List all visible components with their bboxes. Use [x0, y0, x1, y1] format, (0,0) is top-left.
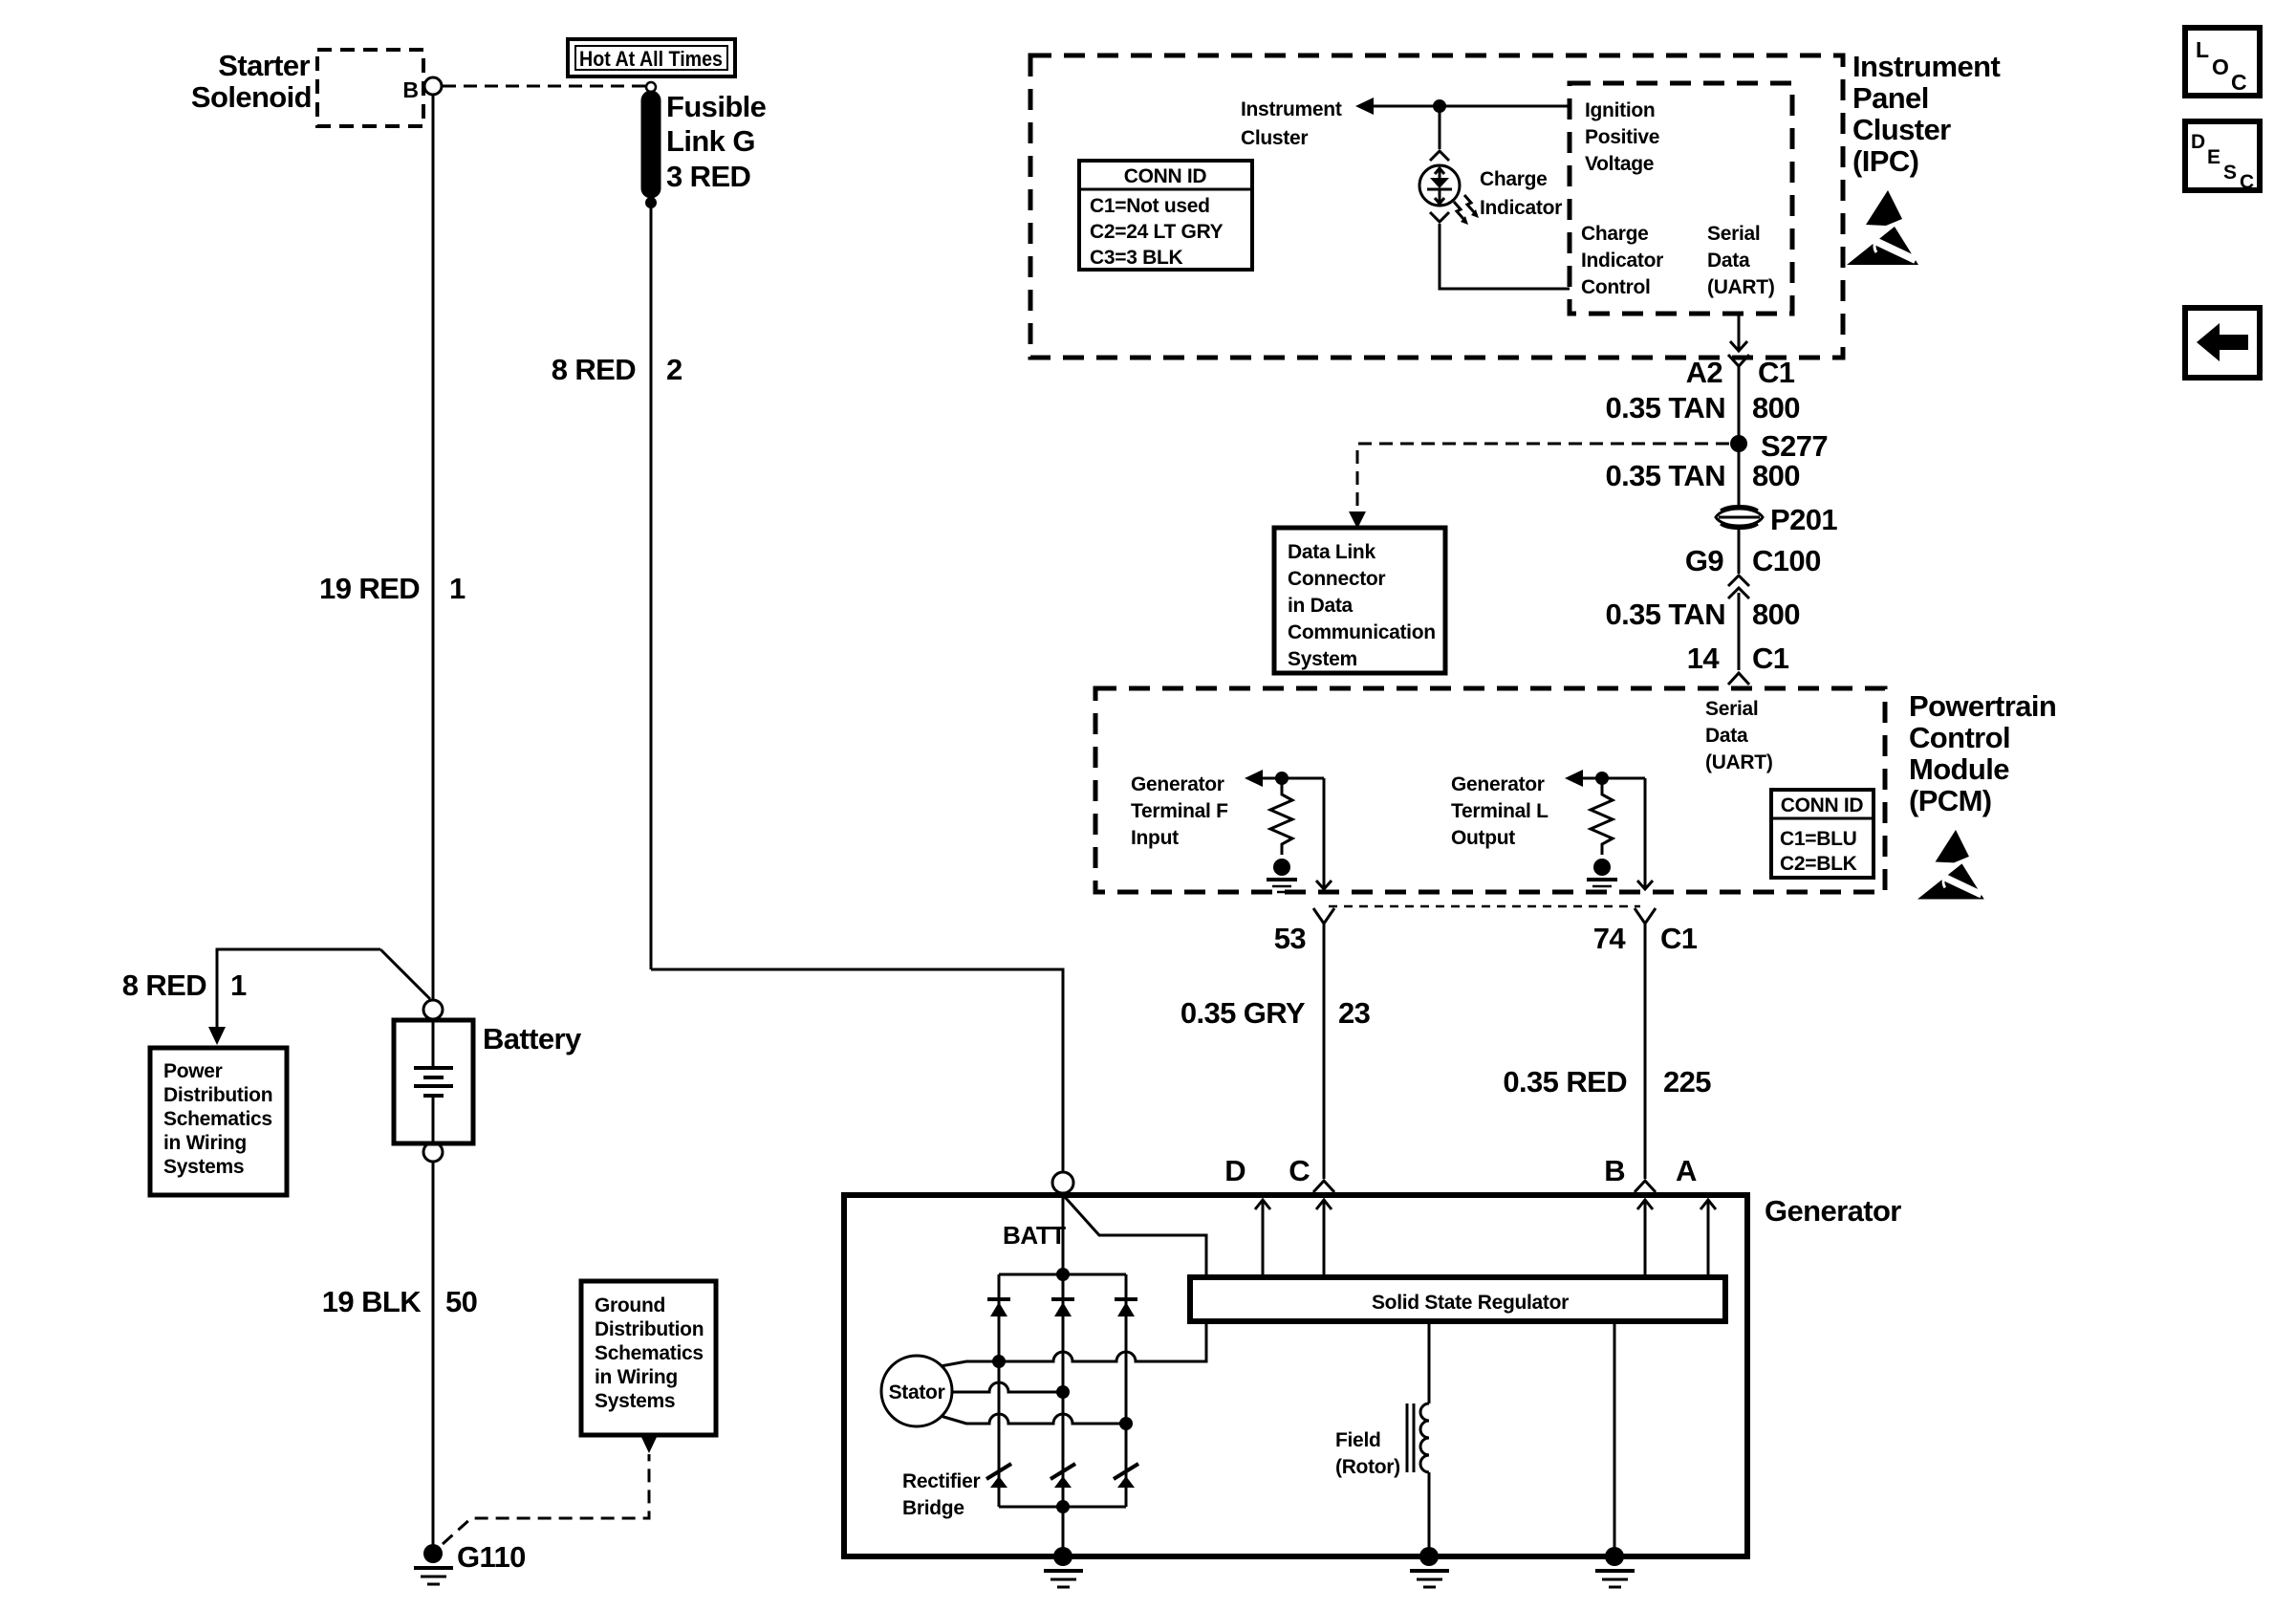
wire rectifier to ground — [1062, 1507, 1065, 1550]
svg-text:Positive: Positive — [1585, 126, 1659, 148]
svg-text:System: System — [1288, 648, 1357, 670]
svg-text:Starter: Starter — [218, 49, 310, 82]
wire 0.35 RED 225 — [1644, 924, 1647, 1179]
battery bottom terminal circle — [423, 1142, 443, 1162]
pin B label — [402, 77, 419, 102]
PCM C1 connector rail dashed — [1329, 905, 1640, 908]
svg-text:Power: Power — [163, 1060, 223, 1082]
svg-text:Generator: Generator — [1131, 773, 1224, 795]
svg-text:Instrument: Instrument — [1852, 50, 2000, 83]
connector chevron below LED — [1430, 212, 1449, 222]
svg-text:L: L — [2196, 37, 2209, 62]
diode bottom 2 — [1051, 1464, 1075, 1479]
svg-text:Serial: Serial — [1705, 698, 1758, 720]
svg-text:50: 50 — [445, 1285, 477, 1318]
field rotor label — [1335, 1429, 1400, 1478]
junction dot F — [1275, 772, 1289, 785]
svg-text:G9: G9 — [1685, 544, 1724, 577]
svg-text:1: 1 — [449, 572, 466, 605]
svg-text:A: A — [1676, 1154, 1697, 1187]
svg-text:S277: S277 — [1761, 429, 1828, 463]
svg-text:Fusible: Fusible — [666, 90, 767, 123]
wire 0.35 GRY 23 — [1323, 924, 1326, 1179]
hot at all times box — [568, 39, 735, 76]
BATT terminal circle — [1052, 1172, 1073, 1193]
field rotor coil — [1428, 1321, 1431, 1403]
svg-text:0.35 TAN: 0.35 TAN — [1605, 459, 1725, 492]
svg-text:in Wiring: in Wiring — [595, 1366, 678, 1388]
regulator arrow A — [1707, 1201, 1710, 1277]
regulator output arrow C — [1323, 1201, 1326, 1277]
wire terminal L — [1582, 777, 1645, 780]
wire BATT to regulator — [1065, 1197, 1206, 1276]
wire BATT to rectifier bus — [1062, 1195, 1065, 1274]
svg-text:Ignition: Ignition — [1585, 99, 1655, 121]
junction dot bottom bus — [1056, 1500, 1070, 1513]
svg-text:Data Link: Data Link — [1288, 541, 1375, 563]
svg-text:Systems: Systems — [595, 1390, 675, 1412]
regulator input arrow B — [1644, 1201, 1647, 1277]
svg-text:(Rotor): (Rotor) — [1335, 1456, 1400, 1478]
terminal B circle — [424, 77, 442, 95]
svg-text:Instrument: Instrument — [1241, 98, 1342, 120]
svg-text:Solenoid: Solenoid — [191, 80, 312, 114]
svg-text:C2=24 LT GRY: C2=24 LT GRY — [1090, 221, 1224, 243]
svg-text:B: B — [402, 77, 419, 102]
svg-text:BATT: BATT — [1003, 1221, 1066, 1250]
rectifier column 2 — [1062, 1274, 1065, 1507]
wire label 19 BLK 50 — [322, 1285, 478, 1318]
svg-text:14: 14 — [1687, 642, 1721, 675]
LED light rays — [1454, 195, 1479, 225]
svg-text:C: C — [2240, 171, 2254, 193]
svg-text:Generator: Generator — [1451, 773, 1545, 795]
svg-text:in Data: in Data — [1288, 595, 1354, 617]
charge indicator label — [1480, 168, 1562, 219]
power distribution schematics box — [150, 1048, 287, 1195]
connector C100 — [1685, 544, 1821, 577]
svg-text:800: 800 — [1752, 598, 1800, 631]
svg-text:C1: C1 — [1660, 922, 1698, 955]
svg-text:Module: Module — [1909, 752, 2009, 786]
svg-text:74: 74 — [1593, 922, 1627, 955]
charge indicator LED — [1419, 165, 1460, 206]
svg-text:Terminal F: Terminal F — [1131, 800, 1228, 822]
svg-text:Panel: Panel — [1852, 81, 1929, 115]
svg-text:Field: Field — [1335, 1429, 1381, 1451]
resistor L pull-up — [1591, 778, 1613, 855]
wire charge indicator control — [1440, 224, 1570, 289]
diode bottom 1 — [986, 1464, 1011, 1479]
svg-text:B: B — [1604, 1154, 1625, 1187]
svg-text:C1: C1 — [1752, 642, 1789, 675]
wire ignition positive voltage — [1373, 105, 1570, 108]
rectifier top bus — [999, 1273, 1126, 1276]
stator — [881, 1356, 952, 1426]
svg-text:Schematics: Schematics — [595, 1342, 704, 1364]
regulator output arrow D — [1262, 1201, 1265, 1277]
connector chevron at generator C — [1313, 1181, 1334, 1192]
svg-text:53: 53 — [1274, 922, 1307, 955]
rectifier bridge label — [902, 1470, 980, 1519]
wire dashed B to fusible link — [443, 85, 645, 88]
svg-text:Connector: Connector — [1288, 568, 1385, 590]
svg-text:CONN ID: CONN ID — [1781, 794, 1864, 816]
back arrow button — [2185, 308, 2260, 378]
diode top 1 — [987, 1297, 1010, 1301]
rectifier column 3 — [1125, 1274, 1128, 1507]
connector chevron above LED — [1430, 151, 1449, 161]
arrow into power distribution box — [208, 1027, 226, 1045]
arrow to ground distribution box — [640, 1435, 658, 1453]
battery box — [394, 1020, 473, 1143]
LOC button — [2185, 28, 2260, 96]
regulator ground wire — [1614, 1321, 1616, 1550]
svg-text:C1=BLU: C1=BLU — [1780, 828, 1856, 850]
svg-text:Data: Data — [1705, 725, 1748, 747]
svg-text:800: 800 — [1752, 391, 1800, 424]
svg-text:Cluster: Cluster — [1241, 127, 1308, 149]
instrument panel cluster IPC box — [1030, 55, 1843, 358]
svg-text:19 BLK: 19 BLK — [322, 1285, 422, 1318]
ignition positive voltage label — [1585, 99, 1659, 175]
svg-text:Distribution: Distribution — [163, 1084, 272, 1106]
battery label — [483, 1022, 582, 1055]
svg-text:C1=Not used: C1=Not used — [1090, 195, 1210, 217]
BATT label — [1003, 1221, 1066, 1250]
svg-text:3 RED: 3 RED — [666, 160, 751, 193]
serial data wire out of IPC — [1738, 314, 1741, 350]
svg-text:E: E — [2207, 146, 2220, 168]
grommet P201 — [1716, 507, 1763, 529]
svg-text:O: O — [2212, 54, 2229, 79]
svg-text:Distribution: Distribution — [595, 1318, 704, 1340]
svg-text:(UART): (UART) — [1705, 751, 1773, 773]
ESD symbol IPC — [1847, 190, 1918, 265]
svg-text:2: 2 — [666, 353, 682, 386]
svg-text:Charge: Charge — [1581, 223, 1649, 245]
svg-text:(UART): (UART) — [1707, 276, 1775, 298]
generator terminal F input label — [1131, 773, 1228, 849]
serial data UART label IPC — [1707, 223, 1775, 298]
arrow to instrument cluster — [1355, 98, 1374, 115]
svg-text:23: 23 — [1338, 996, 1371, 1030]
diode top 3 — [1115, 1297, 1137, 1301]
svg-text:D: D — [2191, 131, 2205, 153]
svg-text:S: S — [2223, 162, 2237, 184]
svg-text:0.35 TAN: 0.35 TAN — [1605, 598, 1725, 631]
svg-text:Stator: Stator — [889, 1382, 945, 1403]
wire 8 RED horizontal to generator BATT — [651, 969, 1063, 1171]
IPC title — [1852, 50, 2000, 178]
connector chevron at generator B — [1635, 1181, 1656, 1192]
ground G110 — [423, 1544, 443, 1563]
stator phase 3 wire — [941, 1414, 1126, 1424]
svg-text:Bridge: Bridge — [902, 1497, 964, 1519]
branch wire 8 RED to power distribution — [217, 949, 380, 1027]
svg-text:0.35 TAN: 0.35 TAN — [1605, 391, 1725, 424]
svg-text:Systems: Systems — [163, 1156, 244, 1178]
svg-text:Generator: Generator — [1765, 1194, 1901, 1228]
rectifier column 1 — [998, 1274, 1001, 1507]
svg-text:in Wiring: in Wiring — [163, 1132, 247, 1154]
wire 0.35 TAN 800 upper — [1738, 366, 1741, 436]
svg-text:Data: Data — [1707, 250, 1750, 272]
svg-text:G110: G110 — [457, 1540, 526, 1574]
svg-text:Ground: Ground — [595, 1295, 665, 1316]
starter solenoid label — [191, 49, 312, 114]
svg-text:Indicator: Indicator — [1480, 197, 1562, 219]
arrow into data link connector box — [1349, 511, 1366, 529]
powertrain control module PCM box — [1095, 688, 1885, 892]
svg-text:8 RED: 8 RED — [552, 353, 637, 386]
stator phase 1 wire — [941, 1361, 999, 1366]
diode top 2 — [1051, 1297, 1074, 1301]
PCM title — [1909, 689, 2056, 817]
junction dot top bus — [1056, 1268, 1070, 1281]
generator label — [1765, 1194, 1901, 1228]
battery top terminal circle — [423, 1000, 443, 1019]
PCM internal ground F — [1273, 859, 1290, 876]
svg-text:Cluster: Cluster — [1852, 113, 1951, 146]
svg-text:800: 800 — [1752, 459, 1800, 492]
wire label 8 RED 1 — [122, 968, 247, 1002]
svg-text:Indicator: Indicator — [1581, 250, 1663, 272]
IPC inner module box — [1570, 83, 1792, 314]
svg-text:(PCM): (PCM) — [1909, 784, 1992, 817]
svg-text:CONN ID: CONN ID — [1124, 165, 1207, 187]
wire down to charge indicator — [1439, 106, 1441, 149]
svg-text:19 RED: 19 RED — [319, 572, 420, 605]
svg-text:C: C — [2231, 70, 2247, 95]
stator phase 2 wire — [952, 1382, 1063, 1392]
resistor F pull-up — [1270, 778, 1292, 855]
wire 0.35 TAN 800 lower — [1738, 593, 1741, 670]
wire 19 RED vertical — [432, 95, 435, 1000]
svg-text:Battery: Battery — [483, 1022, 582, 1055]
splice S277 — [1730, 435, 1747, 452]
junction dot L — [1595, 772, 1609, 785]
wire 19 BLK vertical — [432, 1162, 435, 1546]
wire 8 RED vertical from fusible link — [650, 207, 653, 969]
battery cell symbol — [432, 1019, 435, 1068]
svg-text:(IPC): (IPC) — [1852, 144, 1918, 178]
PCM internal ground L — [1593, 859, 1611, 876]
svg-text:Control: Control — [1581, 276, 1651, 298]
svg-text:C: C — [1289, 1154, 1310, 1187]
ground distribution schematics box — [581, 1281, 716, 1435]
svg-text:Voltage: Voltage — [1585, 153, 1654, 175]
ESD symbol PCM — [1917, 830, 1984, 900]
junction dot charge indicator — [1433, 99, 1446, 113]
generator pin labels D C B A — [1224, 1154, 1697, 1187]
wire terminal F output exits PCM — [1323, 778, 1326, 888]
svg-text:Schematics: Schematics — [163, 1108, 272, 1130]
IPC conn id table — [1079, 161, 1252, 270]
charge indicator control label — [1581, 223, 1663, 298]
svg-text:1: 1 — [230, 968, 247, 1002]
solid state regulator box — [1190, 1277, 1725, 1321]
svg-text:Solid State Regulator: Solid State Regulator — [1372, 1292, 1569, 1314]
dashed wire G110 to ground distribution box — [443, 1454, 649, 1544]
fusible link G bottom junction dot — [645, 197, 657, 208]
arrow to generator terminal L output — [1565, 770, 1583, 787]
wire label 19 RED 1 — [319, 572, 466, 605]
DESC button — [2185, 121, 2260, 190]
arrow to generator terminal F input — [1245, 770, 1263, 787]
svg-text:Charge: Charge — [1480, 168, 1548, 190]
field ground — [1419, 1547, 1439, 1566]
wire diagonal into battery terminal — [380, 949, 430, 999]
svg-text:225: 225 — [1663, 1065, 1711, 1099]
wire 0.35 TAN 800 middle — [1738, 451, 1741, 506]
svg-text:Terminal L: Terminal L — [1451, 800, 1549, 822]
starter solenoid box — [317, 50, 423, 126]
fusible link G body — [642, 92, 660, 197]
connector 53 — [1313, 908, 1334, 924]
dashed wire S277 to data link connector — [1357, 444, 1729, 511]
svg-text:Hot At All Times: Hot At All Times — [579, 47, 723, 71]
generator terminal L output label — [1451, 773, 1549, 849]
svg-text:C3=3 BLK: C3=3 BLK — [1090, 247, 1183, 269]
svg-text:C2=BLK: C2=BLK — [1780, 853, 1857, 875]
connector 14 C1 into PCM — [1687, 642, 1789, 675]
svg-text:Control: Control — [1909, 721, 2010, 754]
generator box — [844, 1195, 1747, 1556]
svg-text:C100: C100 — [1752, 544, 1821, 577]
wire terminal L output exits PCM — [1644, 778, 1647, 888]
diode bottom 3 — [1114, 1464, 1138, 1479]
ground G110 label — [457, 1540, 526, 1574]
svg-text:Input: Input — [1131, 827, 1179, 849]
svg-text:Output: Output — [1451, 827, 1515, 849]
wire terminal F — [1262, 777, 1324, 780]
svg-text:Powertrain: Powertrain — [1909, 689, 2056, 723]
svg-text:0.35 GRY: 0.35 GRY — [1180, 996, 1306, 1030]
svg-text:D: D — [1224, 1154, 1245, 1187]
svg-text:C1: C1 — [1758, 356, 1795, 389]
PCM conn id table — [1771, 790, 1874, 878]
svg-text:A2: A2 — [1686, 356, 1722, 389]
svg-text:Communication: Communication — [1288, 621, 1436, 643]
wire label 8 RED 2 — [552, 353, 682, 386]
svg-text:Link G: Link G — [666, 124, 755, 158]
svg-text:P201: P201 — [1770, 503, 1837, 536]
fusible link label — [666, 90, 767, 193]
svg-text:8 RED: 8 RED — [122, 968, 207, 1002]
serial data UART label PCM — [1705, 698, 1773, 773]
instrument cluster label — [1241, 98, 1342, 149]
regulator ground — [1605, 1547, 1624, 1566]
svg-text:Rectifier: Rectifier — [902, 1470, 980, 1492]
svg-text:0.35 RED: 0.35 RED — [1503, 1065, 1627, 1099]
connector 74 C1 — [1635, 908, 1656, 924]
svg-text:Serial: Serial — [1707, 223, 1760, 245]
data link connector box — [1274, 528, 1445, 673]
connector A2 C1 — [1728, 355, 1749, 366]
rectifier bottom bus — [999, 1506, 1126, 1509]
rectifier ground — [1053, 1547, 1072, 1566]
fusible link G top circle — [646, 82, 656, 92]
